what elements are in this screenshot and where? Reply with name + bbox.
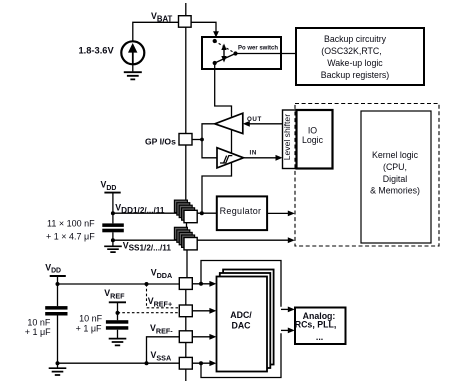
node VDDA-right	[199, 282, 203, 286]
svg-text:(OSC32K,RTC,: (OSC32K,RTC,	[321, 46, 381, 56]
node VREF	[116, 311, 120, 315]
node VSSA-left	[56, 361, 60, 365]
VREF rail bar	[109, 301, 126, 303]
svg-text:OUT: OUT	[247, 116, 262, 123]
rail below IN buffer to VDD	[202, 163, 232, 212]
wire VBAT to power switch	[191, 22, 216, 32]
svg-text:RCs, PLL,: RCs, PLL,	[295, 320, 337, 330]
svg-text:Backup circuitry: Backup circuitry	[324, 34, 387, 44]
capacitor C-VDD	[102, 223, 124, 227]
svg-text:+ 1 × 4.7 μF: + 1 × 4.7 μF	[46, 231, 95, 241]
wire VSSA rail	[58, 362, 180, 364]
svg-text:VSS1/2/.../11: VSS1/2/.../11	[123, 241, 172, 253]
node VSS	[111, 238, 115, 242]
svg-text:Po wer switch: Po wer switch	[238, 45, 278, 51]
regulator box	[217, 196, 267, 230]
out buffer	[215, 113, 243, 133]
svg-text:GP I/Os: GP I/Os	[145, 137, 176, 147]
wire node to VDD pads	[113, 212, 184, 214]
power switch toggle arrow	[223, 49, 225, 58]
svg-text:Backup registers): Backup registers)	[321, 70, 390, 80]
VDD rail bar	[104, 192, 120, 194]
pad stack VDD1..11	[174, 200, 197, 223]
svg-text:10 nF: 10 nF	[79, 313, 103, 323]
svg-text:(CPU,: (CPU,	[383, 162, 407, 172]
svg-text:ADC/: ADC/	[230, 310, 252, 320]
wire VREF+ to ADC	[192, 310, 212, 312]
svg-text:DAC: DAC	[231, 320, 251, 330]
svg-text:& Memories): & Memories)	[370, 186, 420, 196]
svg-text:VSSA: VSSA	[151, 350, 172, 362]
svg-text:VREF+: VREF+	[148, 296, 172, 308]
in buffer (schmitt)	[217, 148, 244, 168]
wire VREF- to ADC	[192, 336, 212, 338]
level shifter box	[283, 110, 297, 169]
wire to VDDA pad	[58, 283, 180, 285]
wire pad to node	[192, 139, 202, 141]
wire bar to node	[57, 276, 59, 284]
pad stack VSS1..11	[174, 227, 197, 250]
ground (VDDA cap)	[57, 363, 59, 367]
chip edge line	[186, 3, 187, 381]
wire regulator out	[267, 212, 289, 214]
power switch contacts	[213, 39, 217, 43]
wire VDD bar to node	[112, 193, 114, 214]
svg-text:Wake-up logic: Wake-up logic	[327, 58, 383, 68]
node VDDA-left	[56, 282, 60, 286]
svg-text:IN: IN	[250, 149, 257, 156]
node VDD	[111, 211, 115, 215]
wire VBAT to battery	[133, 22, 179, 41]
svg-text:VREF: VREF	[104, 288, 125, 300]
wire VDD pads to regulator	[197, 212, 217, 214]
node regulator in	[200, 211, 204, 215]
capacitor C-VREF	[106, 320, 128, 324]
svg-text:VDD: VDD	[101, 179, 117, 191]
node VSSA-right	[199, 361, 203, 365]
IO logic box	[297, 110, 333, 169]
svg-text:VBAT: VBAT	[151, 11, 173, 23]
ground (VSS)	[112, 240, 114, 246]
svg-text:+ 1 μF: + 1 μF	[76, 323, 102, 333]
dashed wire VREF to VREF+	[118, 312, 180, 314]
rail between buffers	[231, 130, 233, 154]
ADC/DAC stack	[217, 270, 274, 372]
wire VSSA to ADC	[192, 362, 212, 364]
wire VSS to core	[197, 239, 289, 241]
svg-text:+ 1 μF: + 1 μF	[25, 327, 51, 337]
ground (VREF cap)	[109, 339, 127, 346]
pad VDDA	[179, 278, 192, 290]
wire VDDA loop to analog	[201, 261, 281, 307]
ground (battery)	[124, 72, 142, 79]
pad VREF-	[179, 331, 192, 343]
svg-text:VREF-: VREF-	[150, 323, 173, 335]
wire battery to ground	[132, 64, 134, 71]
wire switch bottom to buffer rail	[215, 64, 232, 117]
power switch box	[202, 37, 281, 69]
svg-text:...: ...	[316, 332, 323, 342]
wire bar to node	[117, 302, 119, 312]
power switch lever solid	[215, 54, 236, 64]
wire node to VSS pads	[113, 239, 184, 241]
svg-text:Kernel logic: Kernel logic	[372, 150, 419, 160]
node dashed drop	[145, 282, 149, 286]
dashed core box	[295, 104, 439, 247]
wire out buffer to GP node	[202, 124, 215, 140]
wire VSSA loop to analog	[201, 333, 281, 377]
pad GP I/Os	[179, 134, 192, 146]
pad VSSA	[179, 357, 192, 369]
wire OUT	[247, 123, 283, 125]
svg-text:Level shifter: Level shifter	[282, 114, 292, 160]
power switch lever dashed	[215, 41, 236, 54]
svg-text:VDD: VDD	[45, 262, 61, 274]
node VREF- join	[145, 361, 149, 365]
svg-text:Digital: Digital	[383, 174, 407, 184]
pad VBAT	[179, 16, 192, 28]
svg-text:1.8-3.6V: 1.8-3.6V	[79, 45, 115, 55]
kernel logic box	[361, 111, 431, 243]
wire node to IN buffer	[202, 140, 217, 158]
wire VREF- to VSSA rail	[147, 337, 180, 363]
capacitor C-VDDA	[45, 306, 67, 310]
pad VREF+	[179, 305, 192, 317]
svg-text:11 × 100 nF: 11 × 100 nF	[47, 218, 95, 228]
svg-text:10 nF: 10 nF	[27, 318, 51, 328]
analog box	[295, 308, 346, 345]
VDD rail bar bottom	[50, 275, 66, 277]
svg-text:Logic: Logic	[302, 135, 324, 145]
svg-text:Regulator: Regulator	[220, 206, 262, 216]
node GP	[200, 138, 204, 142]
wire IN	[244, 157, 279, 159]
battery source B1	[121, 41, 144, 64]
wire switch to backup	[238, 53, 297, 55]
wire VDDA to ADC	[192, 283, 212, 285]
dashed wire VDDA to VREF+	[147, 284, 180, 308]
backup circuitry box	[296, 28, 424, 85]
svg-text:VDDA: VDDA	[151, 267, 172, 279]
